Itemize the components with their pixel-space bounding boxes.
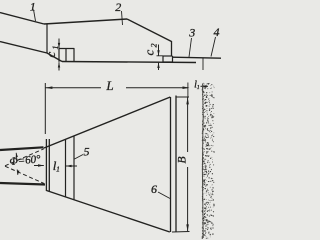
paper background — [0, 0, 221, 240]
leader for label 2 — [122, 11, 123, 25]
svg-text:c: c — [141, 50, 156, 56]
dimension L line right segment — [126, 87, 188, 89]
dimension c2 upper arrow — [158, 45, 160, 56]
leader for label 6 — [158, 192, 170, 199]
c2 top extension tick — [157, 55, 164, 57]
sill box c1 — [59, 49, 74, 62]
svg-text:4: 4 — [214, 25, 220, 39]
svg-text:2: 2 — [115, 0, 121, 14]
flare top edge — [44, 97, 170, 148]
wall 6 front vertical — [170, 97, 172, 232]
entrance wall front vertical — [45, 139, 47, 191]
lower berm slope line — [0, 42, 62, 62]
entrance wall back vertical — [48, 139, 50, 191]
downstream face vertical — [171, 41, 173, 56]
dimension L left arrowhead — [45, 86, 52, 89]
svg-text:1: 1 — [51, 46, 60, 50]
dimension B top arrowhead — [186, 97, 189, 104]
sill box c1 divider — [65, 49, 67, 62]
dimension c1 lower arrow — [58, 62, 60, 70]
svg-text:1: 1 — [30, 0, 36, 14]
dimension c2 lower arrow — [158, 63, 160, 70]
angle arc lower arrow — [16, 170, 19, 175]
top channel wall line — [0, 147, 44, 150]
wall 6 back vertical — [175, 96, 177, 233]
dimension B bottom arrowhead — [186, 224, 189, 231]
dimension l1 left outside arrow — [34, 165, 44, 167]
leader for label 3 — [189, 38, 192, 57]
sill box c2 — [163, 56, 173, 62]
L right extension connector — [187, 83, 189, 98]
svg-text:1: 1 — [197, 85, 200, 91]
svg-text:L: L — [105, 78, 113, 93]
B top extension line — [176, 96, 189, 98]
svg-text:3: 3 — [188, 26, 195, 40]
dimension L line left segment — [45, 87, 101, 89]
svg-text:6: 6 — [151, 182, 157, 196]
leader for label 1 — [34, 10, 36, 22]
downstream ground line — [173, 57, 222, 58]
wall 5 front vertical — [65, 140, 67, 198]
leader for label 4 — [211, 37, 216, 57]
dimension L right arrowhead — [183, 86, 190, 89]
svg-text:c: c — [43, 52, 58, 58]
angle arc upper arrow — [15, 153, 18, 160]
B bottom extension line — [172, 231, 190, 234]
label phi=60 — [9, 153, 42, 168]
svg-text:1: 1 — [56, 165, 60, 174]
dimension B line upper segment — [187, 98, 189, 153]
svg-text:5: 5 — [84, 145, 90, 159]
flare bottom edge — [47, 191, 170, 233]
wall 5 back vertical — [73, 136, 75, 200]
stipple band left boundary strokes — [202, 84, 205, 120]
L left extension line — [44, 83, 46, 134]
downstream drop vertical — [202, 58, 204, 70]
angle lower dashed ray — [5, 166, 44, 183]
svg-text:B: B — [176, 156, 188, 163]
downstream slope line — [127, 19, 172, 42]
dimension c1 upper arrow — [58, 39, 60, 49]
ground stipple band right — [202, 83, 215, 239]
dimension B line lower segment — [187, 167, 189, 231]
dimension l1 right outside arrow — [66, 165, 77, 167]
crest top line — [44, 19, 127, 24]
svg-text:2: 2 — [150, 44, 159, 48]
upstream berm top line — [0, 13, 44, 25]
upstream face vertical x=47 — [46, 24, 48, 54]
angle upper dashed ray — [5, 149, 44, 166]
mini dimension arrow top right — [201, 85, 209, 87]
flume bed line — [62, 62, 196, 63]
bottom channel wall line — [0, 183, 45, 185]
leader for label 5 — [75, 155, 84, 160]
